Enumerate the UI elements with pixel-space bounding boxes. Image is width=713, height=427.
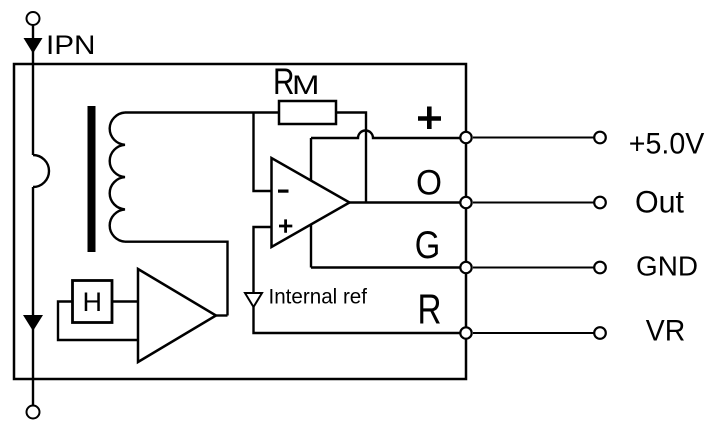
wire coil top to RM [125, 111, 279, 113]
wire reference to R pin [254, 307, 467, 333]
svg-text:O: O [416, 163, 442, 203]
svg-text:Out: Out [635, 184, 684, 220]
wire RM to output node [336, 113, 366, 203]
terminal primary bottom [27, 406, 40, 419]
wire ground rail [311, 266, 466, 268]
op-amp non-inverting input marker [279, 219, 292, 232]
wire op-amp positive supply [310, 138, 312, 181]
pin O [460, 197, 471, 208]
wire pin R to terminal [473, 332, 594, 334]
wire pin O to terminal [473, 202, 594, 204]
svg-text:R: R [418, 286, 442, 333]
wire +5V rail with hop [311, 131, 466, 138]
pin + [460, 132, 471, 143]
resistor RM [279, 101, 336, 124]
wire coil bottom to amplifier [125, 242, 228, 316]
op-amp U1 [272, 158, 350, 247]
wire pin + to terminal [473, 137, 594, 139]
Hall element H [73, 281, 113, 323]
wire primary upper [32, 25, 34, 155]
svg-text:G: G [415, 224, 441, 267]
arrow current direction top [24, 38, 43, 54]
wire H lower loop [58, 302, 138, 341]
svg-text:VR: VR [646, 315, 686, 348]
svg-text:H: H [83, 287, 103, 317]
terminal GND [594, 262, 606, 274]
wire op-amp negative supply [310, 225, 312, 268]
svg-text:M: M [292, 70, 320, 100]
wire non-inverting input [254, 227, 272, 293]
svg-text:IPN: IPN [46, 30, 96, 60]
magnetic core [88, 106, 96, 252]
op-amp inverting input marker [278, 190, 289, 193]
wire inverting input node [254, 113, 272, 192]
pin G [460, 262, 471, 273]
terminal Out [594, 197, 606, 209]
pin R [460, 327, 471, 338]
enclosure case [14, 64, 466, 379]
terminal +5.0V [594, 132, 606, 144]
wire primary lower [32, 187, 34, 406]
wire amplifier output [216, 314, 228, 316]
arrow current direction bottom [23, 315, 43, 331]
label pin + [418, 107, 441, 130]
wire pin G to terminal [473, 267, 594, 269]
internal reference symbol [245, 293, 262, 307]
svg-text:GND: GND [636, 251, 698, 282]
wire output rail [350, 201, 467, 203]
wire H to amplifier input [112, 300, 138, 302]
amplifier A1 [138, 269, 216, 362]
svg-text:+5.0V: +5.0V [629, 127, 705, 160]
secondary coil [110, 113, 125, 242]
terminal primary top [27, 12, 40, 25]
terminal VR [594, 327, 606, 339]
svg-text:Internal ref: Internal ref [269, 286, 368, 309]
primary conductor bump [33, 155, 49, 187]
